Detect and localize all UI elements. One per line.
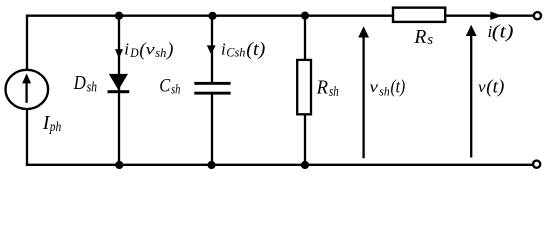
svg-text:v: v <box>146 42 156 59</box>
current arrow i(t) <box>490 11 502 20</box>
junction node Rsh top <box>301 12 309 20</box>
diode Dsh <box>108 74 130 93</box>
svg-text:R: R <box>413 26 426 48</box>
svg-text:sh: sh <box>155 46 166 60</box>
svg-text:(t): (t) <box>391 77 406 98</box>
wire diode branch <box>118 16 120 165</box>
svg-text:R: R <box>316 77 328 99</box>
junction node diode top <box>115 12 123 20</box>
wire left upper <box>26 15 28 70</box>
junction node diode bottom <box>115 161 123 169</box>
svg-text:sh: sh <box>379 85 389 99</box>
svg-text:v: v <box>370 79 379 96</box>
junction node capacitor top <box>208 12 216 20</box>
capacitor Csh <box>194 82 230 95</box>
label Csh <box>159 76 180 97</box>
current arrow iD <box>115 49 123 58</box>
svg-text:s: s <box>427 32 433 48</box>
junction node capacitor bottom <box>207 161 215 169</box>
svg-text:(t): (t) <box>492 22 514 43</box>
svg-text:): ) <box>166 41 173 61</box>
svg-text:D: D <box>73 72 87 94</box>
resistor Rsh <box>297 60 311 114</box>
svg-text:i: i <box>124 40 129 59</box>
svg-text:sh: sh <box>87 80 98 96</box>
junction node Rsh bottom <box>301 161 309 169</box>
svg-text:i: i <box>221 39 226 58</box>
wire left lower <box>26 110 28 166</box>
terminal bottom right <box>533 161 540 168</box>
resistor Rs <box>393 8 445 22</box>
voltage arrow vsh <box>358 26 369 158</box>
wire capacitor branch upper <box>211 16 213 83</box>
terminal top right <box>534 12 541 19</box>
svg-text:(t): (t) <box>486 77 504 98</box>
label Rs <box>413 26 433 48</box>
wire top right of Rs <box>445 15 533 17</box>
voltage arrow v <box>466 25 477 158</box>
label Iph <box>42 112 62 134</box>
svg-text:sh: sh <box>329 84 339 100</box>
label iCsh(t) <box>221 39 265 60</box>
label iD(vsh) <box>124 40 173 61</box>
svg-text:sh: sh <box>171 81 180 96</box>
wire Rsh branch upper <box>304 16 306 60</box>
svg-text:C: C <box>159 76 171 97</box>
label Dsh <box>73 72 97 96</box>
svg-text:ph: ph <box>49 119 61 134</box>
svg-text:D: D <box>129 46 138 60</box>
wire capacitor branch lower <box>211 94 213 164</box>
current source Iph <box>6 70 49 109</box>
svg-text:v: v <box>478 79 487 96</box>
label v(t) <box>478 77 504 98</box>
label i(t) <box>488 22 514 43</box>
svg-text:(t): (t) <box>246 39 265 60</box>
svg-text:Csh: Csh <box>226 46 245 60</box>
current arrow iCsh <box>207 45 216 54</box>
label vsh(t) <box>370 77 406 99</box>
wire Rsh branch lower <box>304 114 306 165</box>
wire bottom bus <box>26 164 533 166</box>
label Rsh <box>316 77 339 100</box>
wire top bus <box>26 15 393 17</box>
